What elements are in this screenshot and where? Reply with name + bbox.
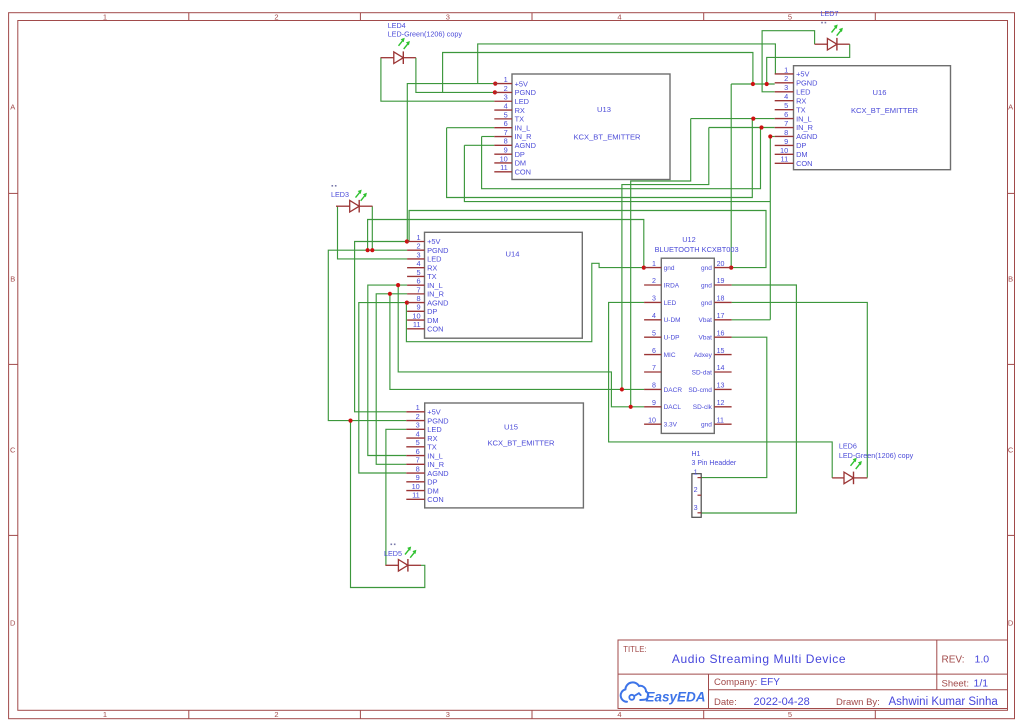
wire LED3 cathode to PGND [371, 206, 373, 250]
U12 pin 15 (Adxey) [694, 347, 732, 359]
U13 pin 8 (AGND) [494, 137, 536, 150]
svg-text:1: 1 [416, 403, 420, 412]
LED3 labels [331, 185, 349, 199]
U12 pin 6 (MIC) [644, 347, 676, 359]
U13 pin 1 (+5V) [494, 75, 528, 88]
H1 value label 3 Pin Headder [692, 460, 737, 467]
svg-text:14: 14 [717, 364, 725, 372]
wire U12 pin19 to H1 pin3 [701, 285, 796, 513]
wire U12 pin1 jog to U14 AGND [406, 263, 643, 341]
U15 pin 2 (PGND) [406, 412, 448, 425]
U12 pin 4 (U-DM) [644, 312, 680, 324]
svg-text:Vbat: Vbat [699, 335, 713, 342]
wire U14 pin8 to U15 pin8 [359, 303, 407, 473]
wire LED5 cathode loop to U15 PGND [351, 421, 425, 588]
svg-text:1: 1 [103, 710, 107, 719]
U16 pin 9 (DP) [775, 137, 807, 150]
U13 pin 4 (RX) [494, 101, 525, 114]
svg-text:Sheet:: Sheet: [942, 679, 969, 690]
U16 pin 4 (RX) [775, 92, 807, 105]
svg-text:5: 5 [652, 329, 656, 337]
svg-text:3: 3 [416, 421, 420, 430]
wire LED4 anode to U13 LED pin [381, 58, 494, 101]
U13 pin 3 (LED) [494, 93, 529, 106]
svg-text:U16: U16 [873, 88, 887, 97]
U16 pin 2 (PGND) [775, 74, 818, 87]
U14 pin 4 (RX) [407, 259, 437, 272]
svg-text:A: A [10, 103, 15, 112]
LED LED5 symbol [385, 547, 421, 572]
wire PGND rail U13.2 to U16.2 [443, 53, 753, 93]
svg-text:+5V: +5V [796, 70, 809, 79]
svg-text:SD-cmd: SD-cmd [688, 387, 712, 394]
svg-text:2: 2 [416, 412, 420, 421]
wire U14 pin1 to U15 pin1 (+5V) [355, 242, 408, 412]
U16 pin 5 (TX) [775, 101, 806, 114]
U12 pin 17 (Vbat) [699, 312, 732, 324]
svg-text:U13: U13 [597, 105, 611, 114]
svg-text:gnd: gnd [664, 265, 675, 272]
wire LED3 anode to U14 LED pin [338, 206, 408, 259]
svg-text:3: 3 [416, 250, 420, 259]
svg-text:+5V: +5V [515, 79, 528, 88]
svg-text:LED: LED [515, 97, 529, 106]
U12 pin 2 (IRDA) [644, 277, 680, 289]
svg-text:2: 2 [416, 242, 420, 251]
svg-text:9: 9 [504, 146, 508, 155]
svg-text:CON: CON [427, 325, 443, 334]
wire IN_L bus U13.6 to U16.6 [447, 119, 753, 198]
svg-text:LED4: LED4 [388, 21, 406, 30]
wire U16 pin6 row [691, 118, 775, 120]
svg-text:8: 8 [652, 382, 656, 390]
U12 pin 20 (gnd) [701, 260, 732, 272]
svg-text:KCX_BT_EMITTER: KCX_BT_EMITTER [487, 438, 555, 447]
svg-text:2: 2 [784, 74, 788, 83]
svg-text:10: 10 [780, 146, 788, 155]
svg-text:RX: RX [427, 263, 437, 272]
U12 pin 11 (gnd) [701, 416, 732, 428]
LED4 labels [388, 21, 463, 39]
svg-text:10: 10 [500, 154, 508, 163]
svg-text:AGND: AGND [427, 298, 448, 307]
U12 pin 18 (gnd) [701, 295, 732, 307]
svg-text:1: 1 [416, 233, 420, 242]
U13 pin 5 (TX) [494, 110, 524, 123]
svg-text:9: 9 [784, 137, 788, 146]
svg-text:REV:: REV: [942, 655, 965, 666]
wire +5V rail U13.1 to U16.1 [478, 44, 776, 84]
svg-text:Company:: Company: [714, 677, 757, 688]
svg-text:4: 4 [504, 101, 508, 110]
svg-text:RX: RX [796, 96, 806, 105]
svg-text:9: 9 [416, 473, 420, 482]
wire U16 AGND drop to U12 pin17 [769, 137, 771, 320]
U13 reference designator [597, 105, 611, 114]
svg-text:2: 2 [694, 485, 698, 494]
U15 value label KCX_BT_EMITTER [487, 438, 555, 447]
IC U12 BLUETOOTH KCXBT003 box [661, 258, 714, 433]
svg-text:gnd: gnd [701, 265, 712, 272]
svg-text:1: 1 [652, 260, 656, 268]
svg-text:TITLE:: TITLE: [623, 645, 646, 654]
wire U14 pin1 to U12 pin20 [409, 211, 766, 268]
svg-text:4: 4 [416, 259, 420, 268]
svg-text:IN_L: IN_L [515, 123, 531, 132]
svg-text:TX: TX [796, 105, 806, 114]
svg-text:5: 5 [504, 110, 508, 119]
svg-text:13: 13 [717, 382, 725, 390]
U12 pin 7 (nc) [644, 364, 661, 372]
wire U13 pin8 stub link [464, 144, 494, 146]
wire U16 pin2 row [731, 83, 775, 85]
svg-text:LED: LED [664, 300, 677, 307]
svg-text:7: 7 [652, 364, 656, 372]
U12 pin 16 (Vbat) [699, 329, 732, 341]
U14 pin 6 (IN_L) [407, 277, 443, 290]
LED LED7 symbol [815, 25, 850, 51]
svg-text:LED: LED [796, 87, 810, 96]
svg-text:AGND: AGND [515, 141, 536, 150]
U16 value label KCX_BT_EMITTER [851, 106, 919, 115]
U16 pin 1 (+5V) [775, 65, 810, 78]
U14 pin 11 (CON) [407, 320, 443, 333]
wire U12 pin17 row [732, 319, 771, 321]
svg-text:LED: LED [427, 255, 441, 264]
svg-text:8: 8 [416, 464, 420, 473]
svg-text:PGND: PGND [796, 79, 817, 88]
svg-text:Ashwini Kumar Sinha: Ashwini Kumar Sinha [889, 696, 999, 708]
svg-text:Vbat: Vbat [699, 317, 713, 324]
wire U12 pin16 Vbat to H1 pin1 [701, 337, 766, 477]
U15 pin 10 (DM) [406, 482, 439, 495]
U15 pin 1 (+5V) [406, 403, 440, 416]
svg-text:4: 4 [652, 312, 656, 320]
svg-text:19: 19 [717, 277, 725, 285]
svg-text:TX: TX [515, 115, 525, 124]
wire U12 pin18 to LED6 cathode [732, 302, 868, 477]
svg-text:U12: U12 [682, 235, 696, 244]
svg-text:2: 2 [274, 12, 278, 21]
svg-text:11: 11 [717, 416, 724, 424]
svg-text:11: 11 [500, 163, 508, 172]
svg-text:10: 10 [412, 482, 420, 491]
svg-text:15: 15 [717, 347, 725, 355]
U12 value label BLUETOOTH KCXBT003 [655, 245, 739, 254]
svg-text:gnd: gnd [701, 300, 712, 307]
svg-text:IN_R: IN_R [427, 460, 444, 469]
U15 pin 3 (LED) [406, 421, 441, 434]
svg-text:11: 11 [412, 491, 420, 500]
svg-text:5: 5 [788, 710, 792, 719]
U13 pin 2 (PGND) [494, 84, 536, 97]
svg-text:KCX_BT_EMITTER: KCX_BT_EMITTER [851, 106, 919, 115]
wire LED7 cathode to PGND [767, 44, 850, 84]
LED6 labels [839, 441, 914, 459]
U12 pin 8 (DACR) [644, 382, 682, 394]
svg-text:B: B [1008, 275, 1013, 284]
svg-text:16: 16 [717, 329, 725, 337]
svg-text:LED-Green(1206) copy: LED-Green(1206) copy [388, 30, 463, 39]
svg-text:LED5: LED5 [384, 549, 402, 558]
wire U16 LED pin to LED7 anode [762, 31, 815, 92]
svg-text:3 Pin Headder: 3 Pin Headder [692, 460, 737, 467]
U15 pin 6 (IN_L) [406, 447, 443, 460]
svg-text:11: 11 [781, 155, 789, 164]
U14 pin 9 (DP) [407, 303, 437, 316]
U14 pin 10 (DM) [407, 311, 439, 324]
svg-text:PGND: PGND [515, 88, 536, 97]
svg-text:Adxey: Adxey [694, 352, 713, 359]
svg-text:IN_L: IN_L [427, 451, 443, 460]
svg-text:LED3: LED3 [331, 190, 349, 199]
U12 pin 10 (3.3V) [644, 416, 678, 428]
svg-text:12: 12 [717, 399, 725, 407]
svg-text:C: C [1008, 446, 1014, 455]
U15 pin 11 (CON) [406, 491, 443, 504]
svg-text:TX: TX [427, 272, 437, 281]
svg-text:LED6: LED6 [839, 441, 857, 450]
svg-text:9: 9 [652, 399, 656, 407]
svg-text:TX: TX [427, 443, 437, 452]
LED LED6 symbol [832, 458, 867, 484]
svg-text:Audio Streaming Multi Device: Audio Streaming Multi Device [672, 652, 846, 666]
wire AGND bus U13.8 across [464, 145, 770, 201]
svg-text:8: 8 [504, 137, 508, 146]
svg-text:D: D [1008, 619, 1014, 628]
U14 pin 2 (PGND) [407, 242, 448, 255]
svg-text:U15: U15 [504, 422, 518, 431]
wire U14 pin2 to U15 pin2 (PGND) [328, 250, 407, 420]
svg-text:LED: LED [427, 425, 441, 434]
svg-text:CON: CON [515, 168, 531, 177]
U12 pin 5 (U-DP) [644, 329, 679, 341]
svg-text:8: 8 [784, 128, 788, 137]
wire U16 IN_L to U12 DACL [631, 119, 691, 407]
U14 pin 3 (LED) [407, 250, 441, 263]
U15 pin 9 (DP) [406, 473, 437, 486]
U15 pin 7 (IN_R) [406, 456, 444, 469]
svg-text:5: 5 [788, 12, 792, 21]
svg-text:+5V: +5V [427, 237, 440, 246]
svg-text:LED7: LED7 [821, 9, 839, 18]
svg-text:SD-dat: SD-dat [692, 369, 712, 376]
U12 pin 3 (LED) [644, 295, 676, 307]
U15 pin 5 (TX) [406, 438, 437, 451]
svg-text:3: 3 [784, 83, 788, 92]
svg-text:4: 4 [617, 12, 621, 21]
svg-text:7: 7 [416, 285, 420, 294]
svg-text:4: 4 [784, 92, 788, 101]
svg-text:DACR: DACR [664, 387, 683, 394]
svg-text:1/1: 1/1 [974, 678, 989, 690]
frame row letters [10, 103, 1014, 628]
title block TITLE label [623, 645, 646, 654]
svg-text:B: B [10, 275, 15, 284]
svg-text:gnd: gnd [701, 282, 712, 289]
LED7 labels [821, 9, 839, 23]
svg-text:RX: RX [515, 106, 525, 115]
U12 pin 12 (SD-clk) [693, 399, 732, 411]
REV field [942, 654, 990, 666]
U13 pin 6 (IN_L) [494, 119, 530, 132]
U16 pin 7 (IN_R) [775, 119, 813, 132]
svg-text:CON: CON [427, 495, 443, 504]
svg-text:20: 20 [717, 260, 725, 268]
U16 pin 6 (IN_L) [775, 110, 812, 123]
U12 pin 1 (gnd) [644, 260, 675, 272]
U14 pin 5 (TX) [407, 268, 437, 281]
svg-text:11: 11 [413, 320, 421, 329]
svg-text:5: 5 [784, 101, 788, 110]
Company field [714, 677, 780, 688]
svg-text:DM: DM [427, 486, 439, 495]
connector H1 3 Pin Headder box [692, 474, 701, 518]
svg-text:PGND: PGND [427, 416, 448, 425]
svg-text:IRDA: IRDA [664, 282, 680, 289]
Date field [714, 696, 810, 708]
IC U13 KCX_BT_EMITTER box [512, 74, 670, 180]
title block frame [618, 640, 1008, 709]
svg-text:U-DM: U-DM [664, 317, 681, 324]
U15 pin 8 (AGND) [406, 464, 448, 477]
IC U14 KCX_BT_EMITTER box [425, 232, 583, 338]
U12 pin 14 (SD-dat) [692, 364, 732, 376]
svg-text:IN_L: IN_L [427, 281, 443, 290]
svg-text:D: D [10, 619, 16, 628]
svg-text:C: C [10, 446, 16, 455]
svg-text:A: A [1008, 103, 1013, 112]
svg-text:1: 1 [504, 75, 508, 84]
svg-text:2022-04-28: 2022-04-28 [754, 696, 810, 708]
svg-text:CON: CON [796, 159, 812, 168]
svg-text:IN_R: IN_R [427, 290, 444, 299]
svg-text:4: 4 [617, 710, 621, 719]
svg-text:PGND: PGND [427, 246, 448, 255]
U13 pin 9 (DP) [494, 146, 525, 159]
svg-text:18: 18 [717, 295, 725, 303]
svg-text:IN_L: IN_L [796, 114, 812, 123]
schematic title text [672, 652, 846, 666]
U16 pin 11 (CON) [775, 155, 813, 168]
wire U14 pin2 to U12 pin1 [368, 220, 644, 268]
wire U14 IN_L to U12 DACL [398, 285, 644, 407]
svg-text:1.0: 1.0 [975, 654, 990, 666]
LED LED4 symbol [381, 38, 416, 64]
H1 pin 3 [694, 503, 702, 513]
svg-text:6: 6 [784, 110, 788, 119]
svg-text:10: 10 [648, 416, 656, 424]
svg-text:6: 6 [504, 119, 508, 128]
wire U13 pin7 stub link [482, 136, 495, 138]
svg-text:6: 6 [652, 347, 656, 355]
svg-text:DP: DP [515, 150, 525, 159]
svg-text:1: 1 [784, 65, 788, 74]
U15 reference designator [504, 422, 518, 431]
svg-text:5: 5 [416, 268, 420, 277]
Sheet field [942, 678, 989, 690]
wire U14 pin7 to U15 pin7 [376, 294, 407, 465]
LED LED3 symbol [336, 190, 373, 213]
EasyEDA logo [621, 682, 706, 704]
U14 pin 8 (AGND) [407, 294, 448, 307]
svg-text:7: 7 [416, 456, 420, 465]
svg-text:3: 3 [504, 93, 508, 102]
IC U16 KCX_BT_EMITTER box [794, 66, 951, 170]
frame column ticks top/bottom [189, 13, 876, 719]
svg-text:3.3V: 3.3V [664, 422, 678, 429]
svg-text:9: 9 [416, 303, 420, 312]
U14 pin 1 (+5V) [407, 233, 440, 246]
U16 reference designator [873, 88, 887, 97]
svg-text:Date:: Date: [714, 697, 737, 708]
svg-text:DP: DP [427, 478, 437, 487]
svg-text:RX: RX [427, 434, 437, 443]
wire U16 pin7 row [709, 127, 775, 129]
H1 pin 2 [694, 485, 702, 495]
IC U15 KCX_BT_EMITTER box [425, 403, 584, 508]
wire U13 pin6 stub link [447, 127, 495, 129]
wire PGND drop to U12 pin20 [730, 84, 732, 268]
wire U15 LED pin to LED5 anode [386, 429, 406, 565]
svg-text:7: 7 [504, 128, 508, 137]
svg-text:EFY: EFY [761, 677, 781, 688]
frame column numbers [103, 12, 792, 719]
svg-text:LED-Green(1206) copy: LED-Green(1206) copy [839, 451, 914, 460]
svg-text:SD-clk: SD-clk [693, 404, 713, 411]
svg-text:DP: DP [796, 141, 806, 150]
svg-text:3: 3 [652, 295, 656, 303]
svg-text:U14: U14 [506, 249, 520, 258]
U14 reference designator [506, 249, 520, 258]
U15 pin 4 (RX) [406, 429, 437, 442]
svg-text:H1: H1 [692, 451, 701, 458]
svg-text:17: 17 [717, 312, 725, 320]
svg-text:MIC: MIC [664, 352, 676, 359]
svg-text:2: 2 [504, 84, 508, 93]
wire U13 pin2 row to LED4 cathode [416, 58, 495, 93]
svg-text:EasyEDA: EasyEDA [646, 690, 706, 705]
U12 pin 9 (DACL) [644, 399, 681, 411]
svg-text:2: 2 [652, 277, 656, 285]
svg-text:8: 8 [416, 294, 420, 303]
svg-text:6: 6 [416, 277, 420, 286]
svg-text:2: 2 [274, 710, 278, 719]
U13 pin 10 (DM) [494, 154, 526, 167]
svg-text:1: 1 [103, 12, 107, 21]
svg-text:Drawn By:: Drawn By: [836, 697, 880, 708]
svg-text:AGND: AGND [427, 469, 448, 478]
H1 pin 1 [694, 468, 702, 478]
svg-text:4: 4 [416, 429, 420, 438]
U13 pin 11 (CON) [494, 163, 531, 176]
svg-text:KCX_BT_EMITTER: KCX_BT_EMITTER [573, 132, 641, 141]
svg-text:BLUETOOTH KCXBT003: BLUETOOTH KCXBT003 [655, 245, 739, 254]
svg-text:IN_R: IN_R [796, 123, 813, 132]
svg-text:7: 7 [784, 119, 788, 128]
wire U12 pin3 run to LED6 anode [609, 302, 833, 478]
U13 pin 7 (IN_R) [494, 128, 531, 141]
svg-text:DM: DM [515, 159, 527, 168]
wire U13 pin1 row to U14 pin1 [407, 84, 495, 242]
U16 pin 3 (LED) [775, 83, 811, 96]
svg-text:gnd: gnd [701, 422, 712, 429]
U12 pin 19 (gnd) [701, 277, 732, 289]
wire IN_R bus U13.7 to U16.7 [482, 128, 761, 189]
frame row ticks left/right [9, 193, 1015, 535]
U13 value label KCX_BT_EMITTER [573, 132, 641, 141]
svg-text:DM: DM [427, 316, 439, 325]
